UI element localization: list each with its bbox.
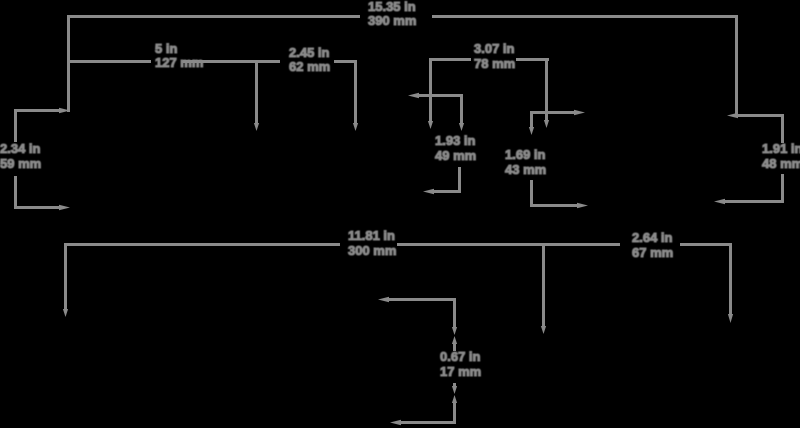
- dimension I/J shared middle vertical with down arrow: [541, 243, 546, 334]
- svg-text:300 mm: 300 mm: [348, 243, 396, 258]
- label A 15.35 in / 390 mm: [368, 0, 416, 28]
- dimension K upper bowtie arrows: [452, 327, 457, 344]
- svg-text:49 mm: 49 mm: [435, 148, 476, 163]
- label I 11.81 in / 300 mm: [348, 228, 396, 258]
- D right vertical with down arrow: [544, 58, 549, 128]
- label D 3.07 in / 78 mm: [474, 41, 515, 71]
- label E 2.34 in / 59 mm: [0, 141, 41, 171]
- dimension A top width line, left part: [68, 15, 360, 18]
- dimension G lower vertical: [530, 180, 533, 207]
- dimension I left vertical with down arrow: [63, 243, 68, 317]
- svg-text:0.67 in: 0.67 in: [440, 349, 481, 364]
- dimension G top reference line with right arrow: [530, 110, 585, 116]
- dimension K vertical below label: [453, 383, 456, 389]
- dimension K bottom reference line with left arrow: [390, 420, 456, 426]
- dimension K top reference line with left arrow: [378, 297, 456, 303]
- dimension F lower vertical: [458, 167, 461, 193]
- svg-text:2.34 in: 2.34 in: [0, 141, 41, 156]
- dimension I bottom width line, middle part: [397, 243, 620, 246]
- svg-text:62 mm: 62 mm: [289, 59, 330, 74]
- dimension F top reference line with left arrow: [408, 93, 463, 99]
- svg-text:1.69 in: 1.69 in: [505, 147, 546, 162]
- svg-text:390 mm: 390 mm: [368, 13, 416, 28]
- dimension F bottom reference line with left arrow: [423, 189, 461, 195]
- dimension E vertical lower part: [14, 176, 17, 209]
- svg-text:1.91 in: 1.91 in: [762, 141, 800, 156]
- dimension J right vertical with down arrow: [728, 243, 733, 323]
- svg-text:1.93 in: 1.93 in: [435, 133, 476, 148]
- dimension B line (5 in), left part: [68, 60, 151, 63]
- label C 2.45 in / 62 mm: [289, 45, 330, 74]
- B/C shared tick vertical with down arrow: [254, 61, 259, 131]
- dimension B line (5 in), right part: [183, 60, 257, 63]
- dimension H vertical lower part: [781, 174, 784, 203]
- svg-text:15.35 in: 15.35 in: [368, 0, 416, 14]
- dimension K vertical, segment to bottom corner: [453, 401, 456, 424]
- dimension D line (3.07 in), left part: [431, 58, 471, 61]
- svg-text:43 mm: 43 mm: [505, 162, 546, 177]
- label B 5 in / 127 mm: [155, 41, 203, 70]
- dimension E bottom reference line with right arrow: [14, 205, 70, 211]
- dimension A top width line, right part: [432, 15, 738, 18]
- svg-text:17 mm: 17 mm: [440, 364, 481, 379]
- dimension H bottom reference line with left arrow: [714, 199, 784, 205]
- dimension F upper vertical with down arrow: [459, 94, 464, 131]
- dimension C line (2.45 in), right part: [334, 60, 357, 63]
- label F 1.93 in / 49 mm: [435, 133, 476, 163]
- dimension G bottom reference line with right arrow: [530, 203, 588, 209]
- svg-text:3.07 in: 3.07 in: [474, 41, 515, 56]
- dimension H top reference line with left arrow: [727, 113, 784, 119]
- dimension K lower bowtie arrows: [452, 386, 457, 403]
- dimension A left extension vertical: [67, 15, 70, 112]
- dimension C line (2.45 in), left part: [257, 60, 280, 63]
- svg-text:67 mm: 67 mm: [632, 245, 673, 260]
- svg-text:2.45 in: 2.45 in: [289, 45, 330, 60]
- svg-text:48 mm: 48 mm: [762, 156, 800, 171]
- label G 1.69 in / 43 mm: [505, 147, 546, 177]
- dimension H vertical upper part: [781, 114, 784, 143]
- dimension I bottom width line, right part: [680, 243, 732, 246]
- svg-text:2.64 in: 2.64 in: [632, 230, 673, 245]
- label K 0.67 in / 17 mm: [440, 349, 481, 379]
- label J 2.64 in / 67 mm: [632, 230, 673, 260]
- dimension K vertical, segment from top corner: [453, 298, 456, 329]
- svg-text:78 mm: 78 mm: [474, 56, 515, 71]
- svg-text:127 mm: 127 mm: [155, 55, 203, 70]
- svg-text:59 mm: 59 mm: [0, 156, 41, 171]
- label H 1.91 in / 48 mm: [762, 141, 800, 171]
- dimension K vertical above label: [453, 342, 456, 351]
- dimension G upper vertical with down arrow: [529, 111, 534, 135]
- dimension E top reference line with right arrow: [14, 108, 70, 114]
- svg-text:5 in: 5 in: [155, 41, 177, 56]
- dimension D line (3.07 in), right part: [516, 58, 549, 61]
- svg-text:11.81 in: 11.81 in: [348, 228, 395, 243]
- dimension I bottom width line, left part: [66, 243, 340, 246]
- D left vertical with down arrow: [428, 58, 433, 129]
- C right tick vertical with down arrow: [353, 61, 358, 131]
- dimension A right extension vertical: [735, 15, 738, 116]
- dimension E vertical upper part: [14, 109, 17, 142]
